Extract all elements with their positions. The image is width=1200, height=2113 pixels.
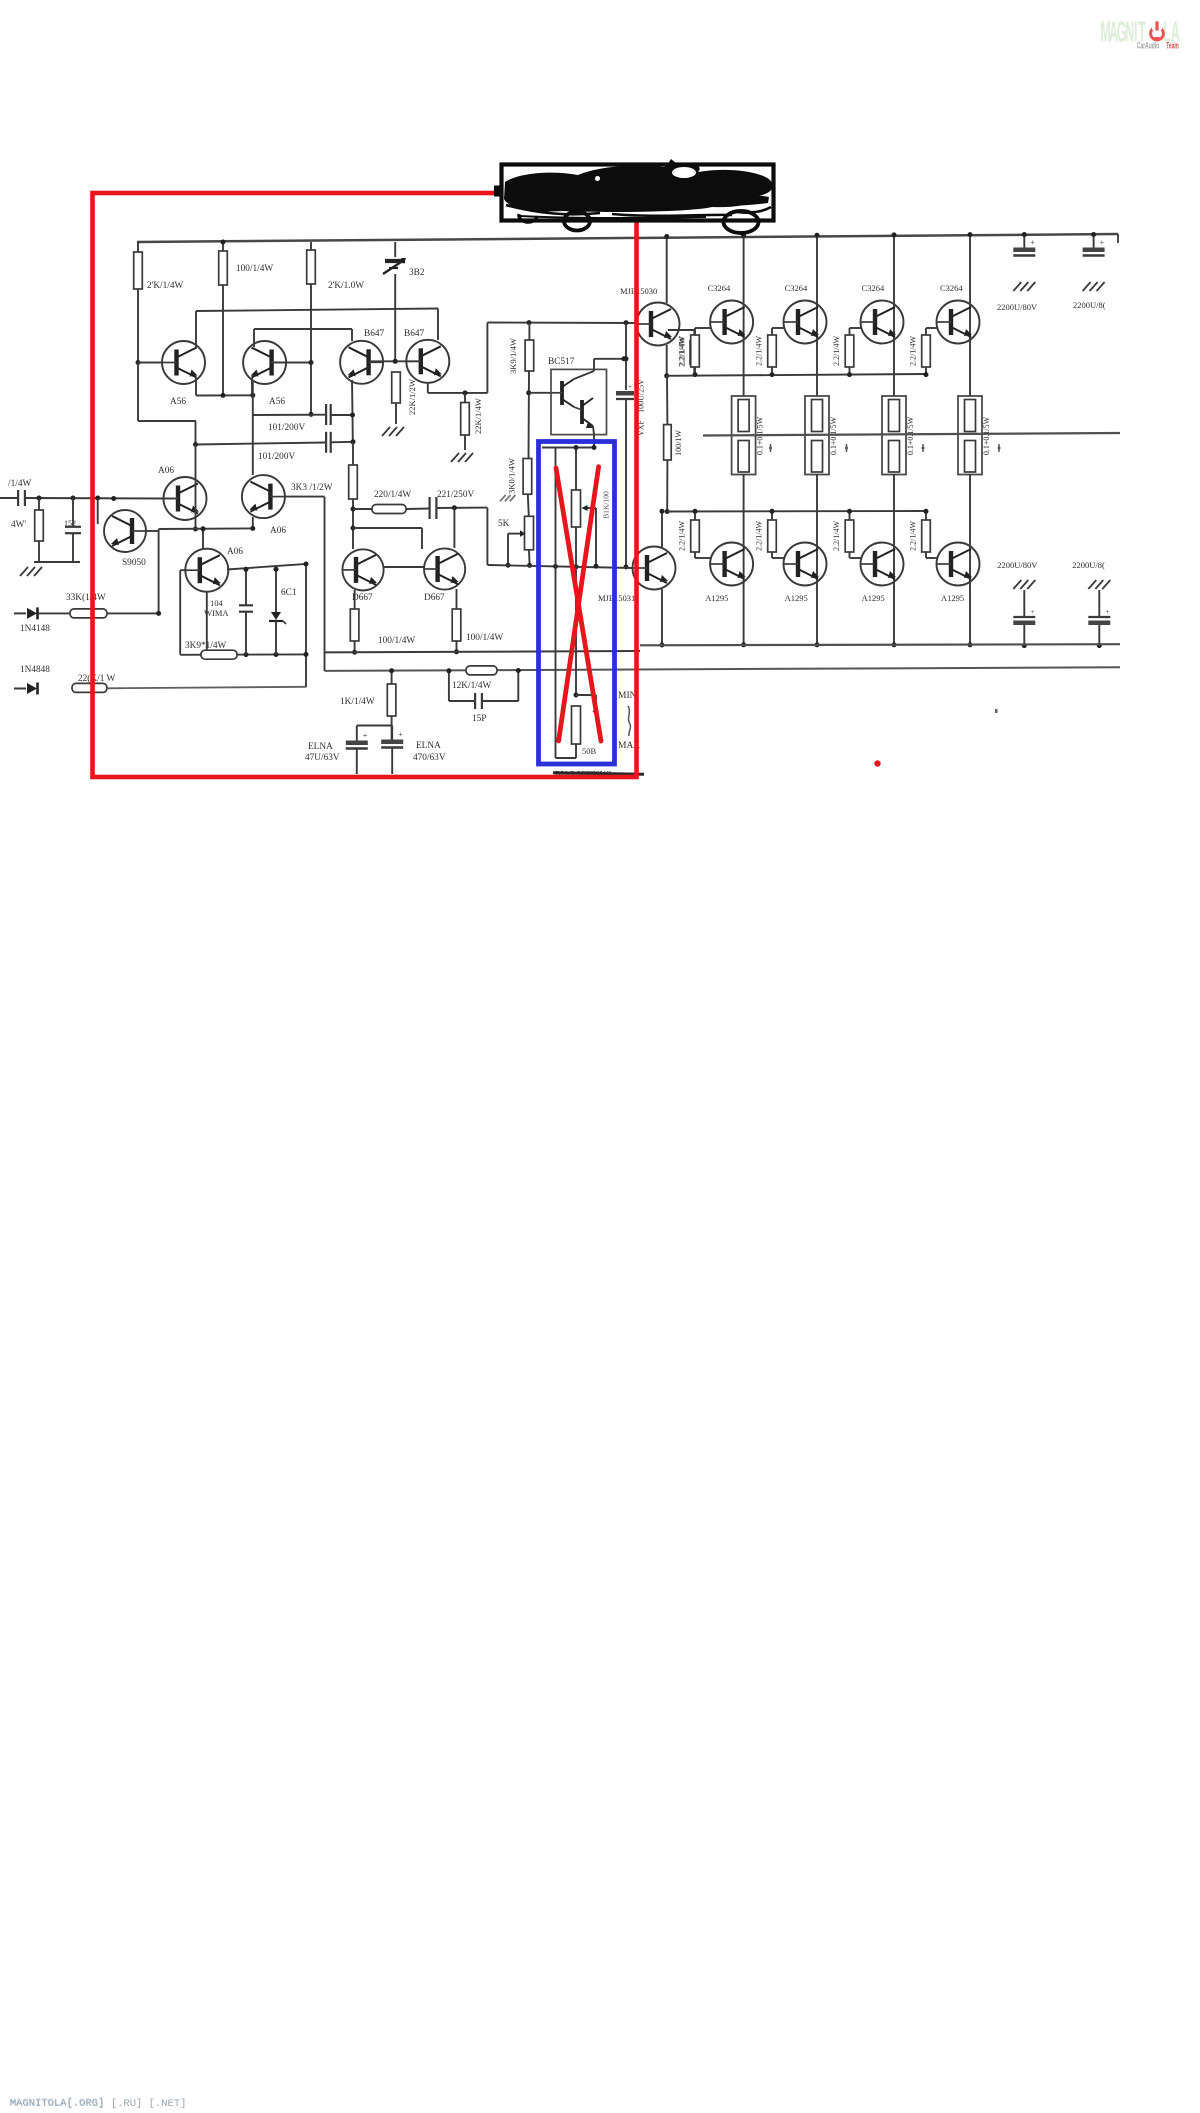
svg-text:6C1: 6C1 — [281, 588, 297, 598]
wire S9050 left — [97, 498, 99, 524]
wire C3 right — [436, 507, 487, 509]
wire drive rail lower — [667, 510, 925, 513]
wire R25 bottom link — [771, 552, 773, 558]
wire output column 2 upper — [816, 235, 818, 397]
wire Q10 right — [227, 564, 306, 570]
wire R16 top — [528, 323, 530, 340]
ground G6 — [1083, 282, 1091, 291]
transistor Q19 A1295 — [784, 543, 827, 586]
wire R20 top link — [694, 328, 696, 335]
tick output rail — [922, 444, 924, 452]
svg-text:12K/1/4W: 12K/1/4W — [452, 681, 491, 691]
tick output rail — [846, 444, 848, 452]
svg-text:220/1/4W: 220/1/4W — [374, 490, 411, 500]
diode D1 1N4148 — [14, 612, 26, 614]
svg-text:5K: 5K — [498, 519, 510, 529]
transistor Q10 A06 vas — [185, 549, 228, 592]
wire R15 bottom — [464, 435, 466, 450]
wire R11 bottom — [38, 541, 40, 562]
wire R26 top — [849, 511, 851, 520]
wire A06 tail — [159, 527, 253, 530]
wire R27 bottom link — [925, 552, 927, 558]
svg-text:C3264: C3264 — [708, 283, 731, 293]
wire P2 bottom — [575, 527, 577, 695]
wire x353 lower — [352, 499, 354, 549]
transistor Q13 MJE15031 — [633, 547, 676, 590]
wire R1 bottom to Q1 base node — [137, 289, 139, 363]
svg-text:2200U/8(: 2200U/8( — [1073, 300, 1106, 310]
wire R9 bottom — [391, 716, 393, 740]
svg-text:+: + — [1105, 608, 1109, 616]
svg-text:+: + — [363, 731, 368, 740]
svg-text:2.2/1/4W: 2.2/1/4W — [678, 521, 687, 551]
wire P3 wiper arm — [576, 694, 596, 696]
wire R9 top — [391, 671, 393, 684]
black redaction box — [502, 165, 774, 221]
resistor R17 3K0/1/4W — [523, 459, 532, 495]
wire output column 2 lower — [816, 474, 818, 586]
wire x253 column — [252, 382, 254, 475]
wire C1 right — [331, 414, 353, 416]
wire output column 3 lower — [893, 474, 895, 586]
wire R17 bottom — [528, 494, 529, 516]
capacitor C10 100U/25V — [616, 391, 634, 396]
red cross stroke 2 — [559, 467, 599, 741]
wire C4 loop right — [482, 700, 518, 702]
resistor R1 2K/1/4W — [134, 252, 143, 289]
transistor Q2 A56 — [243, 341, 286, 384]
svg-text:2200U/80V: 2200U/80V — [997, 302, 1038, 312]
wire x626 lower — [625, 399, 627, 567]
svg-text:1N4148: 1N4148 — [20, 624, 50, 634]
wire predriver emitter rail — [325, 651, 641, 652]
svg-text:A1295: A1295 — [705, 593, 728, 603]
wire Q10 top — [202, 529, 204, 550]
wire R25 top — [771, 511, 773, 520]
resistor R12 33K/1/4W — [70, 609, 107, 618]
wire bottom cap 2 leads — [1098, 590, 1100, 617]
svg-text:Team: Team — [1166, 40, 1179, 51]
red cross stroke 1 — [556, 468, 601, 741]
wire output mid rail — [703, 433, 1120, 436]
ground G1 — [382, 427, 390, 436]
wire output column 4 lower — [969, 474, 971, 586]
wire Q6 emitter — [456, 589, 458, 609]
svg-text:2'K/1.0W: 2'K/1.0W — [328, 281, 364, 291]
wire A56 to B647 lower — [254, 328, 352, 330]
svg-text:+: + — [1030, 238, 1035, 247]
transistor Q3 B647 — [340, 341, 383, 384]
wire R6 to C3 — [406, 508, 430, 511]
emitter resistor pair ER2 0.1+0.1/5W — [805, 396, 829, 475]
svg-text:2.2/1/4W: 2.2/1/4W — [755, 521, 764, 551]
svg-text:50B: 50B — [582, 746, 597, 756]
svg-text:+: + — [1030, 608, 1034, 616]
svg-text:A1295: A1295 — [785, 593, 808, 603]
ground G2 input — [20, 567, 28, 576]
wire R19 bottom — [666, 460, 668, 512]
wire D1-R12 — [38, 612, 70, 614]
wire C8 top — [72, 498, 74, 527]
tick output rail — [998, 444, 1000, 452]
resistor R19 100/1W — [664, 425, 672, 460]
svg-text:A56: A56 — [269, 397, 285, 407]
wire Q13 collector — [661, 511, 663, 547]
svg-text:104: 104 — [210, 598, 224, 608]
capacitor C2 101/200V — [325, 432, 327, 453]
transistor Q18 A1295 — [710, 543, 753, 586]
wire Q8 base — [164, 498, 178, 500]
wire Q1 base — [138, 362, 162, 364]
svg-text:B1K/100: B1K/100 — [602, 491, 611, 519]
wire R4 bottom — [395, 403, 397, 424]
svg-text:ELNA: ELNA — [308, 742, 333, 752]
resistor R3 2K/1.0W — [307, 250, 316, 284]
wire x626 upper — [625, 323, 627, 390]
potentiometer P1 5K — [525, 516, 534, 550]
svg-text:+: + — [398, 730, 403, 739]
node Q1 base — [136, 360, 141, 365]
wire Q6 feed — [453, 508, 455, 548]
wire P1 bottom — [528, 550, 531, 566]
wire Q3 emitter — [351, 380, 354, 415]
svg-text:3K0/1/4W: 3K0/1/4W — [507, 458, 517, 494]
svg-text:2.2/1/4W: 2.2/1/4W — [755, 336, 764, 366]
capacitor C14 2200U/80V — [1088, 616, 1110, 618]
wire Z1 top — [275, 569, 277, 612]
resistor R18 2.2/1/4W — [690, 341, 699, 364]
capacitor C6 ELNA 470U/63V — [381, 740, 403, 745]
svg-text:+: + — [1100, 238, 1105, 247]
transistor Q17 C3264 — [937, 301, 980, 344]
svg-text:N: N — [1125, 16, 1134, 48]
wire R1 top — [137, 242, 139, 252]
resistor R4 22K/1/2W — [392, 372, 401, 403]
potentiometer P3 50B — [572, 706, 581, 744]
wire vas out line — [489, 565, 634, 568]
svg-text:3K9*1/4W: 3K9*1/4W — [185, 641, 227, 651]
svg-text:1K/1/4W: 1K/1/4W — [340, 697, 375, 707]
svg-text:ELNA: ELNA — [416, 741, 441, 751]
wire drive rail upper — [667, 374, 926, 376]
wire R20 bottom — [694, 367, 696, 375]
wire top cap 2 lead — [1093, 234, 1095, 249]
resistor R23 2.2/1/4W npn base — [922, 335, 931, 367]
wire C8 bottom — [72, 533, 74, 562]
wire Q2 collector up — [253, 329, 255, 347]
svg-text:3K3 /1/2W: 3K3 /1/2W — [291, 483, 333, 493]
wire R23 top link — [925, 328, 927, 335]
wire Q4 emitter path — [427, 382, 429, 393]
wire long lower line — [325, 667, 1121, 671]
resistor R8 100/1/4W — [452, 609, 461, 641]
wire R3 to base rail — [271, 362, 311, 364]
transistor Q9 A06 — [242, 475, 285, 518]
resistor R21 2.2/1/4W npn base — [768, 335, 777, 367]
wire ELNA link — [357, 725, 392, 727]
wire Q5 emitter — [354, 590, 356, 609]
capacitor C4 15P — [474, 693, 476, 709]
svg-text:101/200V: 101/200V — [268, 423, 305, 433]
wire R19 top — [666, 376, 668, 425]
trimmer 3B2 — [385, 259, 405, 263]
wire output column 1 lower — [743, 474, 745, 586]
wire main positive supply rail — [137, 234, 1118, 242]
wire emitter rail A56 — [196, 394, 253, 396]
resistor R7 100/1/4W — [350, 609, 359, 641]
wire R3 bottom — [310, 284, 312, 363]
capacitor C11 2200U/80V — [1013, 248, 1035, 253]
capacitor C5 ELNA 47U/63V — [346, 741, 368, 746]
transistor Q15 C3264 — [784, 301, 827, 344]
wire Q12 emitter — [666, 345, 668, 376]
svg-text:0.1+0.1/5W: 0.1+0.1/5W — [982, 416, 991, 455]
resistor R24 2.2/1/4W pnp base — [691, 520, 700, 552]
wire R26 bottom link — [849, 552, 851, 558]
svg-text:2'K/1/4W: 2'K/1/4W — [147, 281, 184, 291]
wire C5 bottom — [356, 749, 358, 775]
wire R21 top link — [771, 328, 773, 335]
svg-text:22K/1/2W: 22K/1/2W — [407, 379, 417, 415]
capacitor C12 2200U/80V — [1083, 248, 1105, 253]
svg-text:MIN: MIN — [618, 691, 637, 701]
svg-text:MAGNITOLA[.ORG] [.RU] [.NET]: MAGNITOLA[.ORG] [.RU] [.NET] — [10, 2098, 186, 2110]
diode D2 1N4848 — [14, 688, 26, 690]
wire left column down — [137, 363, 139, 422]
subcircuit box BC517 — [551, 369, 607, 434]
ground G5 — [1013, 282, 1021, 291]
svg-text:A06: A06 — [270, 526, 286, 536]
wire R2 top — [222, 242, 224, 251]
resistor R14 3K9*1/4W — [201, 650, 237, 659]
transistor Q16 C3264 — [861, 301, 904, 344]
speck — [995, 709, 998, 713]
tick output rail — [770, 444, 772, 452]
wire Q10 base — [180, 569, 186, 571]
wire bottom cap 1 leads — [1023, 590, 1025, 617]
wire P2 wiper — [586, 507, 596, 509]
resistor R15 22K/1/4W — [461, 403, 470, 436]
wire R24 top — [694, 511, 696, 520]
svg-text:A1295: A1295 — [941, 593, 964, 603]
resistor R6 220/1/4W — [372, 505, 406, 514]
capacitor C13 2200U/80V — [1013, 616, 1035, 618]
wire C4 loop left — [448, 671, 450, 701]
svg-text:470/63V: 470/63V — [413, 753, 446, 763]
wire Z1 bottom — [275, 621, 277, 655]
svg-text:2.2/1/4W: 2.2/1/4W — [909, 336, 918, 366]
potentiometer P2 bias — [572, 490, 581, 527]
svg-text:WIMA: WIMA — [204, 608, 229, 618]
wire NFB drop — [324, 497, 326, 671]
resistor R20 2.2/1/4W npn base — [691, 335, 700, 367]
wire bias block bottom — [180, 653, 306, 655]
wire R24 bottom link — [694, 552, 696, 558]
capacitor C3 221/250V — [429, 497, 431, 519]
svg-text:C3264: C3264 — [940, 283, 963, 293]
ground G7 — [1013, 580, 1021, 589]
svg-text:2.2/1/4W: 2.2/1/4W — [832, 336, 841, 366]
resistor R13 22K/1W — [72, 683, 107, 692]
wire bottom negative rail — [640, 644, 1120, 645]
wire Q5-Q6 link — [384, 566, 424, 568]
svg-text:A56: A56 — [170, 397, 186, 407]
wire 3B2 column — [394, 242, 396, 257]
svg-text:3B2: 3B2 — [409, 268, 425, 278]
wire R18 bottom — [693, 364, 695, 376]
svg-text:A06: A06 — [158, 466, 174, 476]
wire P1 wiper — [508, 533, 520, 535]
wire Q1 emitter — [195, 378, 197, 396]
svg-text:S9050: S9050 — [122, 558, 146, 568]
wire R21 bottom — [771, 367, 773, 375]
wire Q9 emitter — [250, 526, 255, 531]
wire C9 bottom — [245, 612, 247, 655]
capacitor C8 shunt — [65, 526, 81, 528]
wire pot feed — [575, 448, 577, 491]
svg-text:0.1+0.1/5W: 0.1+0.1/5W — [906, 416, 915, 455]
wire Q2 emitter — [251, 378, 253, 398]
wire R18 top — [693, 330, 695, 341]
svg-text:2.2/1/4W: 2.2/1/4W — [678, 336, 687, 366]
capacitor C9 104 WIMA — [239, 604, 253, 606]
wire Q11 collector — [574, 371, 594, 379]
svg-text:C3264: C3264 — [862, 283, 885, 293]
vertical through Q8 — [195, 445, 197, 530]
wire C2 right — [331, 441, 353, 444]
wire R6 left — [353, 508, 372, 510]
wire C6 bottom — [391, 748, 393, 775]
transistor Q4 B647 — [406, 340, 449, 383]
svg-text:B647: B647 — [364, 329, 384, 339]
wire R23 bottom — [925, 367, 927, 375]
blue annotation rectangle — [539, 442, 615, 765]
red annotation rectangle — [93, 193, 637, 777]
wire Q12 collector — [666, 236, 668, 304]
svg-text:A06: A06 — [227, 547, 243, 557]
transistor Q20 A1295 — [861, 543, 904, 586]
svg-text:101/200V: 101/200V — [258, 452, 295, 462]
wire C1 left — [253, 414, 326, 416]
wire top cap 1 lead — [1023, 234, 1025, 249]
wire gnd row — [34, 561, 80, 563]
wire R15 top — [464, 393, 466, 403]
wire bias box top — [542, 447, 594, 449]
wire Q13 emitter — [661, 589, 663, 645]
svg-text:2.2/1/4W: 2.2/1/4W — [832, 521, 841, 551]
svg-text:C3264: C3264 — [785, 283, 808, 293]
svg-text:100/1/4W: 100/1/4W — [378, 636, 415, 646]
wire driver top rail — [487, 322, 637, 325]
wire input line — [25, 497, 164, 500]
wire Q9 base — [285, 496, 325, 498]
wire R7 bottom — [354, 641, 356, 652]
wire B647 base link — [370, 360, 420, 362]
svg-text:2200U/80V: 2200U/80V — [997, 560, 1038, 570]
transistor Q14 C3264 — [710, 301, 753, 344]
svg-text:3K9/1/4W: 3K9/1/4W — [508, 338, 518, 374]
resistor R26 2.2/1/4W pnp base — [845, 520, 854, 552]
resistor R27 2.2/1/4W pnp base — [922, 520, 931, 552]
svg-text:100/1/4W: 100/1/4W — [466, 633, 503, 643]
long vertical x306 — [305, 564, 307, 688]
transistor Q1 A56 — [162, 341, 205, 384]
resistor R9 1K/1/4W — [387, 684, 396, 716]
emitter resistor pair ER3 0.1+0.1/5W — [882, 396, 906, 475]
resistor R2 100/1/4W — [219, 251, 228, 285]
ground G4 small — [500, 495, 506, 501]
wire R16 bottom — [528, 371, 531, 459]
wire Q1 collector up — [195, 311, 197, 348]
resistor R5 3K3/1/2W — [349, 465, 358, 499]
MAGNITOLA watermark logo — [1100, 16, 1180, 51]
transistor Q12 MJE15030 — [637, 303, 680, 346]
transistor Q5 D667 — [342, 549, 383, 590]
wire output column 3 upper — [893, 235, 895, 397]
transistor Q6 D667 — [424, 548, 465, 589]
red dot — [874, 760, 880, 766]
resistor R11 input 4W — [35, 510, 44, 541]
svg-text:BC517: BC517 — [548, 357, 575, 367]
wire A56 to B647 upper — [196, 309, 438, 312]
range mark — [628, 706, 631, 736]
svg-text:47U/63V: 47U/63V — [305, 753, 340, 763]
svg-text:22(K/1 W: 22(K/1 W — [78, 673, 115, 684]
svg-text:D667: D667 — [424, 593, 445, 603]
svg-text:4W': 4W' — [11, 520, 26, 530]
svg-text:22K/1/4W: 22K/1/4W — [473, 398, 483, 434]
transistor Q7 S9050 — [104, 510, 146, 552]
resistor R22 2.2/1/4W npn base — [845, 335, 854, 367]
capacitor C7 input — [17, 490, 19, 506]
svg-text:33K(1/4W: 33K(1/4W — [66, 592, 106, 603]
wire R22 bottom — [849, 367, 851, 375]
svg-text:/1/4W: /1/4W — [8, 479, 31, 489]
wire Q10 left leg — [179, 570, 181, 655]
svg-text:B647: B647 — [404, 329, 424, 339]
wire R8 bottom — [456, 641, 458, 652]
wire output column 4 upper — [969, 234, 971, 397]
wire R11 top — [38, 498, 40, 510]
svg-text:1N4848: 1N4848 — [20, 665, 50, 675]
resistor R25 2.2/1/4W pnp base — [768, 520, 777, 552]
transistor Q21 A1295 — [937, 543, 980, 586]
zener Z1 6C1 — [271, 612, 281, 620]
svg-text:100/1W: 100/1W — [674, 430, 683, 456]
svg-text:+: + — [628, 383, 632, 391]
svg-text:2200U/8(: 2200U/8( — [1072, 560, 1105, 570]
wire node528 right — [353, 527, 422, 529]
wire R13 long right — [107, 687, 306, 689]
svg-text:A1295: A1295 — [862, 593, 885, 603]
wire R27 top — [925, 511, 927, 520]
wire C9 top — [245, 569, 247, 605]
wire Q10 bottom — [206, 592, 208, 655]
wire Q7 right down — [158, 529, 160, 613]
wire drop to lower line — [486, 508, 488, 565]
capacitor C1 101/200V — [325, 404, 327, 425]
svg-text:CarAudio: CarAudio — [1137, 40, 1160, 51]
emitter resistor pair ER1 0.1+0.1/5W — [732, 396, 756, 475]
resistor R10 12K/1/4W — [466, 666, 497, 675]
wire C2 left — [196, 443, 326, 445]
ground G3 — [451, 453, 459, 462]
wire Q11 emitter — [593, 426, 594, 435]
emitter resistor pair ER4 0.1+0.1/5W — [958, 396, 982, 475]
wire R22 top link — [849, 328, 851, 335]
wire input stub — [0, 497, 17, 499]
wire P3 bottom — [575, 744, 577, 758]
